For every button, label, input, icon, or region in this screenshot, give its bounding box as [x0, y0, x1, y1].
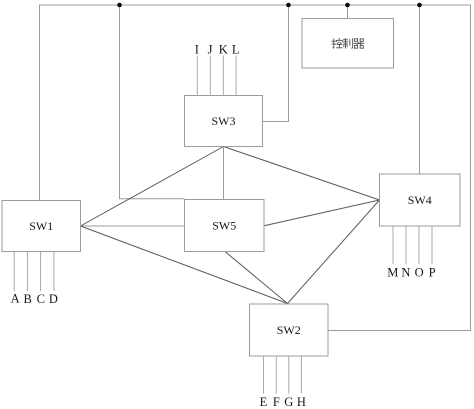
svg-text:N: N	[401, 265, 410, 279]
svg-text:A: A	[11, 292, 20, 306]
svg-text:J: J	[208, 43, 213, 57]
svg-text:L: L	[232, 43, 240, 57]
svg-text:P: P	[429, 265, 436, 279]
svg-text:D: D	[49, 292, 58, 306]
svg-text:F: F	[273, 395, 280, 409]
svg-text:E: E	[260, 395, 268, 409]
svg-text:H: H	[297, 395, 306, 409]
svg-text:SW4: SW4	[408, 193, 432, 207]
svg-text:O: O	[415, 265, 424, 279]
svg-text:I: I	[195, 43, 199, 57]
svg-text:B: B	[24, 292, 32, 306]
svg-text:SW2: SW2	[277, 323, 301, 337]
svg-text:G: G	[284, 395, 293, 409]
svg-text:SW3: SW3	[212, 114, 236, 128]
svg-text:K: K	[219, 43, 228, 57]
svg-text:M: M	[387, 265, 398, 279]
svg-text:SW1: SW1	[29, 219, 53, 233]
svg-text:C: C	[37, 292, 45, 306]
svg-text:SW5: SW5	[212, 219, 236, 233]
